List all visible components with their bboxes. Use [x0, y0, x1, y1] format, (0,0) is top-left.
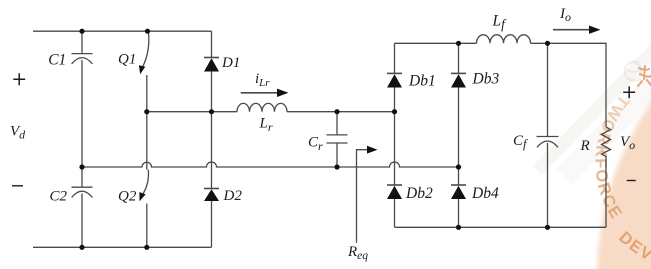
watermark gray crest emblem: [625, 61, 642, 81]
capacitor Cr: [327, 112, 348, 167]
bridge right vertical with diode gaps: [458, 43, 460, 227]
node C mid: [79, 164, 84, 169]
diode Db4: [451, 185, 466, 199]
capacitor C2: [72, 187, 93, 197]
node C2 bottom: [79, 245, 84, 250]
svg-text:Db1: Db1: [408, 73, 436, 90]
node C1 top: [79, 29, 84, 34]
svg-text:C2: C2: [50, 189, 68, 205]
switch arrowheads: [139, 65, 146, 201]
wire mid rail: [147, 111, 237, 113]
capacitor Cf: [537, 43, 559, 227]
node bridge right mid: [456, 164, 461, 169]
svg-text:Db2: Db2: [405, 185, 433, 202]
label minus Vo: [627, 180, 636, 182]
node output top: [545, 41, 550, 46]
diode Db1: [387, 73, 402, 87]
svg-text:D2: D2: [223, 188, 243, 204]
wire bottom-left rail: [33, 246, 212, 248]
wire bridge top rail: [395, 42, 477, 44]
diode Db3: [451, 73, 466, 87]
label plus Vo: [623, 86, 635, 98]
svg-text:C1: C1: [48, 51, 66, 68]
node bridge left mid: [392, 109, 397, 114]
wire lower mid rail with hops: [82, 162, 459, 167]
arrow Req measurement: [357, 146, 378, 243]
label plus Vd: [13, 73, 25, 85]
svg-text:Db3: Db3: [472, 71, 500, 88]
arrow iLr: [241, 89, 289, 97]
watermark orange glyph: [638, 66, 651, 86]
svg-text:D1: D1: [221, 55, 240, 71]
Q1 arrowhead: [139, 65, 145, 74]
wire bridge bottom rail: [395, 226, 607, 228]
node bridge right bottom: [456, 225, 461, 230]
wire Q-branch lower: [146, 204, 148, 248]
diode Db2: [387, 185, 402, 199]
transistor Q2 switch blade: [143, 170, 148, 194]
watermark peach circle: [597, 0, 651, 269]
Q2 arrowhead: [139, 192, 145, 201]
node Q1 top: [145, 29, 150, 34]
arrow Io: [553, 26, 601, 34]
node Cr top: [334, 109, 339, 114]
wire mid rail right of Lr: [287, 111, 395, 113]
bridge left vertical with diode gaps: [394, 43, 396, 227]
wire D-branch with diode gap D1: [211, 31, 213, 247]
node Q2 bottom: [144, 245, 149, 250]
svg-text:Q1: Q1: [118, 52, 136, 68]
label minus Vd: [12, 185, 23, 187]
node Q mid rail: [144, 109, 149, 114]
inductor Lr: [237, 103, 287, 111]
watermark arc text WORKFORCE DEV: [591, 91, 651, 269]
watermark diagonal light band 2: [557, 0, 651, 184]
node Cf bottom: [545, 225, 550, 230]
node bridge right top: [456, 41, 461, 46]
inductor Lf: [477, 35, 531, 44]
diode D1: [204, 58, 219, 72]
transistor Q1 switch blade: [143, 34, 149, 67]
wire top rail to R corner: [531, 43, 607, 127]
wire C-branch lower: [81, 194, 83, 248]
svg-text:R: R: [580, 138, 590, 154]
watermark diagonal light band 1: [533, 0, 651, 175]
svg-text:Db4: Db4: [471, 185, 499, 202]
wire top-left rail: [33, 30, 212, 32]
svg-text:Q2: Q2: [118, 189, 137, 205]
wire C-branch upper: [81, 31, 83, 53]
node Cr bottom: [334, 164, 339, 169]
resistor R zigzag: [602, 127, 611, 227]
capacitor C1: [72, 54, 93, 64]
wire Q-branch mid: [146, 75, 148, 170]
diode D2: [204, 189, 219, 202]
wire C-branch middle: [81, 60, 83, 187]
node D mid rail: [209, 109, 214, 114]
